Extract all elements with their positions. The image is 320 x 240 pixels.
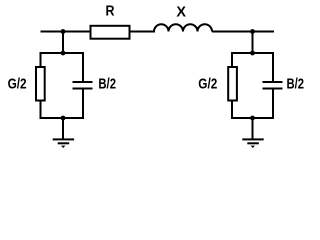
capacitor B/2 left bbox=[73, 82, 93, 89]
svg-text:G/2: G/2 bbox=[198, 75, 217, 92]
wire left shunt top bar bbox=[40, 52, 85, 54]
wire left ground stem bbox=[62, 118, 64, 140]
node junction dot top-right bbox=[250, 29, 255, 34]
node junction dot top-left bbox=[61, 29, 66, 34]
wire right G/2 top lead bbox=[231, 52, 233, 67]
wire left G/2 bottom lead bbox=[40, 101, 42, 120]
svg-text:X: X bbox=[176, 3, 186, 20]
wire right shunt top bar bbox=[231, 52, 274, 54]
resistor R bbox=[91, 26, 130, 39]
svg-text:B/2: B/2 bbox=[98, 75, 116, 92]
capacitor B/2 right bbox=[263, 82, 283, 89]
wire right capacitor top lead bbox=[272, 52, 274, 82]
svg-text:G/2: G/2 bbox=[8, 75, 27, 92]
ground right bbox=[242, 138, 263, 140]
wire top-left segment bbox=[41, 31, 90, 33]
wire right vertical drop bbox=[252, 32, 254, 54]
wire right G/2 bottom lead bbox=[231, 101, 233, 120]
wire coil-to-right-end bbox=[212, 31, 274, 33]
wire left capacitor top lead bbox=[82, 52, 84, 82]
resistor G/2 right bbox=[228, 67, 237, 101]
wire right ground stem bbox=[252, 118, 254, 140]
ground left bbox=[53, 138, 74, 140]
svg-text:B/2: B/2 bbox=[287, 75, 305, 92]
inductor X bbox=[154, 24, 212, 31]
resistor G/2 left bbox=[36, 67, 45, 101]
wire left G/2 top lead bbox=[40, 52, 42, 67]
node junction dot left bottom bbox=[61, 116, 66, 121]
node junction dot left bar bbox=[61, 51, 66, 56]
wire resistor-to-coil bbox=[131, 31, 156, 33]
wire left capacitor bottom lead bbox=[82, 89, 84, 120]
node junction dot right bottom bbox=[250, 116, 255, 121]
wire left shunt bottom bar bbox=[40, 117, 85, 119]
wire left vertical drop bbox=[62, 32, 64, 54]
wire right shunt bottom bar bbox=[231, 117, 274, 119]
wire right capacitor bottom lead bbox=[272, 89, 274, 120]
node junction dot right bar bbox=[250, 51, 255, 56]
svg-text:R: R bbox=[106, 2, 115, 19]
